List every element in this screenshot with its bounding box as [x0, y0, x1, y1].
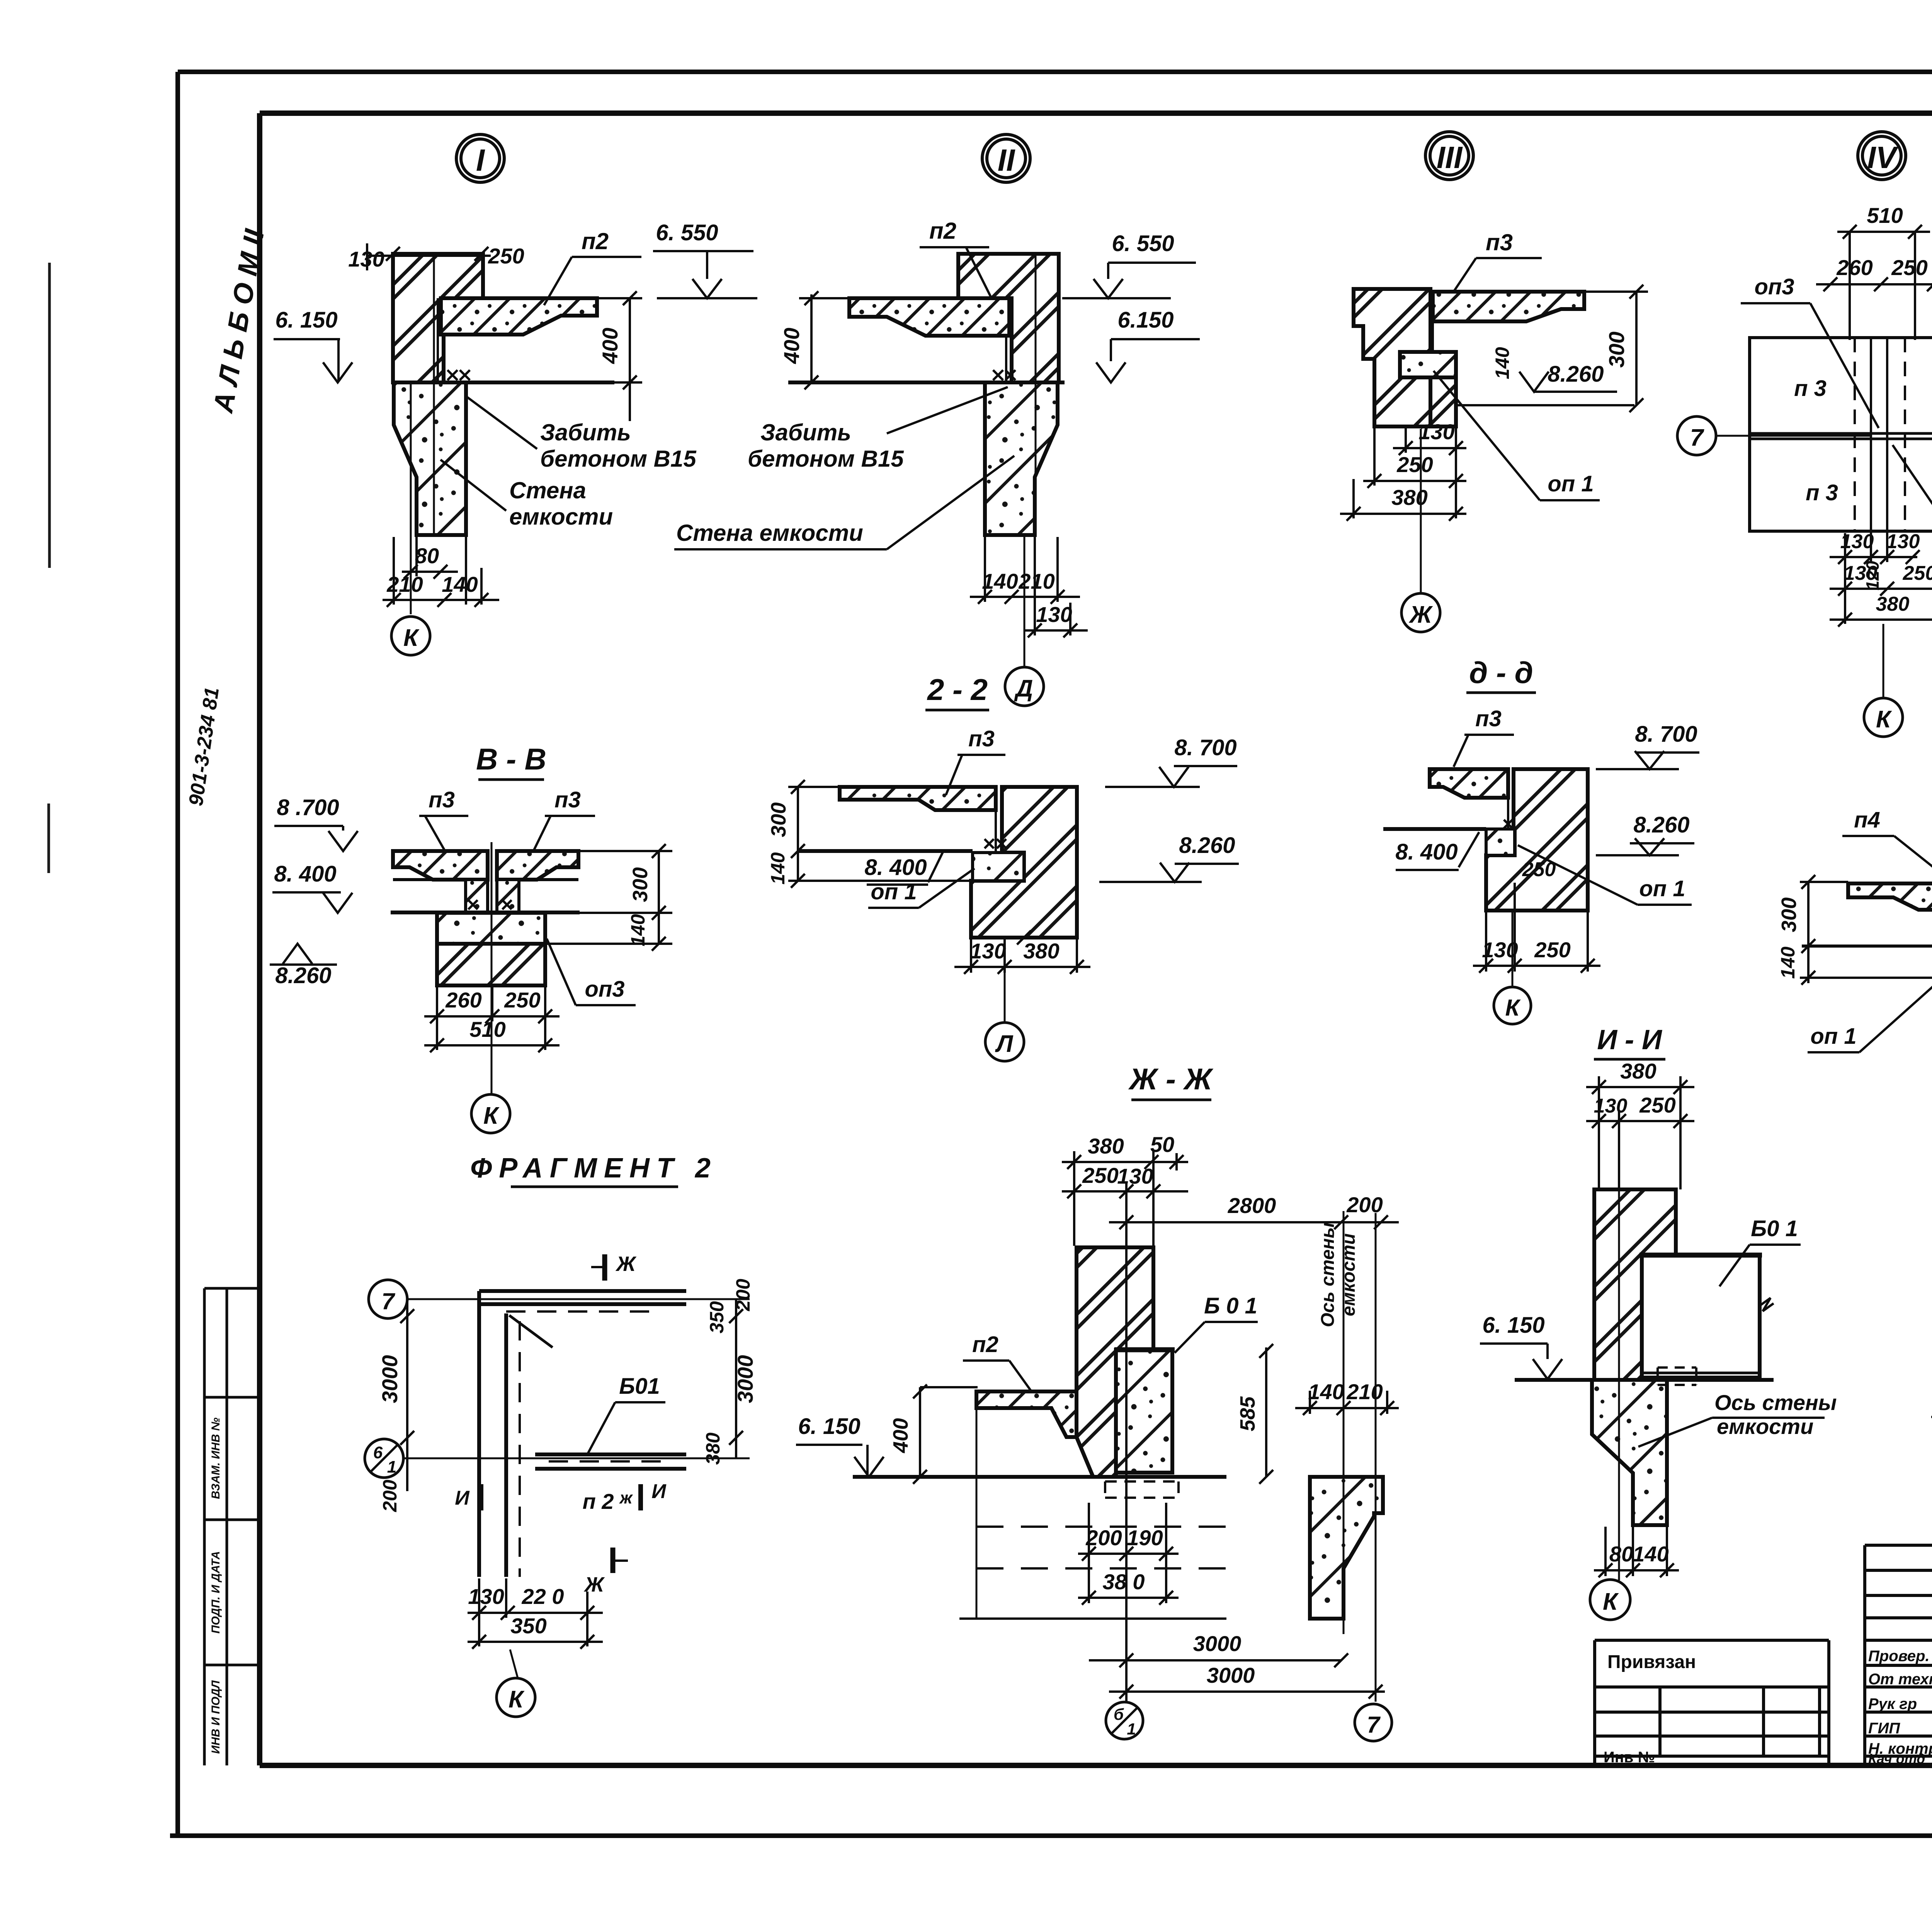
- И-И wall: [1594, 1189, 1676, 1380]
- д-д level line: [1383, 827, 1486, 831]
- detail II upper wall: [958, 254, 1059, 382]
- svg-text:Л: Л: [995, 1031, 1014, 1057]
- Ж-Ж embed plate dashed: [1105, 1481, 1179, 1498]
- Ж-Ж upper wall: [1077, 1247, 1153, 1477]
- detail IV circle: [1858, 132, 1906, 180]
- Ж-Ж slab п2: [976, 1391, 1077, 1437]
- detail II dim 400: [799, 291, 849, 389]
- detail I lower wall: [394, 382, 466, 535]
- svg-text:Ж - Ж: Ж - Ж: [1128, 1062, 1214, 1096]
- К-К pier K bottom dims 80 / 210 140: [1931, 1348, 1932, 1424]
- svg-text:130: 130: [1594, 1095, 1628, 1117]
- svg-text:300: 300: [629, 867, 652, 902]
- detail IV axis circle 7: [1677, 416, 1716, 455]
- svg-text:3000: 3000: [1193, 1631, 1242, 1656]
- detail III dim 300: [1584, 285, 1648, 412]
- svg-text:210: 210: [386, 572, 423, 596]
- svg-text:3000: 3000: [733, 1355, 757, 1403]
- svg-text:II: II: [998, 143, 1015, 177]
- svg-text:260: 260: [1836, 255, 1872, 280]
- detail II bottom dims 140/210/130: [970, 537, 1088, 637]
- svg-text:140: 140: [1777, 946, 1799, 979]
- svg-text:Провер.: Провер.: [1868, 1648, 1930, 1665]
- Ж-Ж dims 200 190 / 380: [959, 1503, 1226, 1619]
- svg-text:380: 380: [1088, 1134, 1124, 1158]
- detail I axis line: [411, 255, 434, 614]
- svg-text:6. 550: 6. 550: [1112, 231, 1174, 256]
- svg-text:250: 250: [1639, 1093, 1675, 1117]
- svg-text:IV: IV: [1867, 140, 1898, 175]
- svg-text:Привязан: Привязан: [1607, 1652, 1696, 1672]
- Ж-Ж right pier: [1310, 1477, 1383, 1619]
- д-д slab p3: [1430, 769, 1508, 798]
- 2-2 wall: [971, 787, 1077, 938]
- И-И embed plate dashed: [1658, 1368, 1696, 1385]
- detail I xxx joint fill marks: [447, 370, 470, 380]
- svg-text:Ось стены: Ось стены: [1318, 1222, 1338, 1327]
- svg-text:Рук гр: Рук гр: [1868, 1695, 1917, 1712]
- 2-2 axis + circle Л: [1004, 939, 1006, 1023]
- svg-text:Стена емкости: Стена емкости: [676, 520, 863, 546]
- svg-text:К: К: [403, 625, 420, 651]
- svg-text:140: 140: [1308, 1379, 1344, 1404]
- svg-text:I: I: [476, 143, 485, 177]
- svg-text:оп 1: оп 1: [871, 879, 917, 904]
- svg-text:оп3: оп3: [585, 977, 624, 1002]
- svg-text:д - д: д - д: [1469, 656, 1533, 690]
- svg-text:Б01: Б01: [619, 1374, 660, 1399]
- svg-text:380: 380: [702, 1432, 724, 1465]
- svg-text:п3: п3: [1486, 229, 1513, 255]
- svg-text:Ж: Ж: [615, 1252, 637, 1276]
- svg-text:140: 140: [1492, 347, 1513, 379]
- svg-text:300: 300: [1777, 897, 1801, 932]
- svg-text:Забить: Забить: [760, 420, 851, 445]
- svg-text:3000: 3000: [378, 1355, 402, 1403]
- svg-text:250: 250: [1534, 938, 1570, 962]
- detail III axis + circle Ж: [1420, 429, 1422, 593]
- svg-text:130: 130: [1886, 530, 1920, 553]
- 2-2 bottom dims 130/380: [954, 931, 1090, 974]
- svg-text:Инв №: Инв №: [1604, 1749, 1655, 1766]
- detail III circle: [1425, 132, 1473, 180]
- svg-text:п4: п4: [1854, 807, 1880, 832]
- svg-text:200: 200: [1346, 1193, 1383, 1217]
- detail III bottom dims 130/250/380: [1340, 377, 1466, 521]
- svg-text:емкости: емкости: [1338, 1233, 1359, 1317]
- svg-text:6: 6: [373, 1443, 383, 1462]
- svg-text:260: 260: [445, 988, 481, 1012]
- svg-text:п3: п3: [968, 726, 995, 751]
- detail I axis circle K: [391, 617, 430, 655]
- svg-text:Ж: Ж: [1408, 601, 1433, 628]
- д-д wall: [1486, 769, 1588, 911]
- detail IV bottom dims: [1830, 531, 1932, 627]
- svg-text:2800: 2800: [1228, 1193, 1276, 1218]
- svg-text:250: 250: [504, 988, 540, 1012]
- В-В right dim 300/140: [519, 844, 672, 951]
- detail I upper wall: [393, 254, 483, 382]
- 2-2 pad оп1: [973, 853, 1024, 881]
- svg-text:2 - 2: 2 - 2: [927, 673, 988, 707]
- Ж-Ж dim 585: [1259, 1344, 1273, 1484]
- 2-2 left dims 300/140: [788, 780, 971, 888]
- svg-text:Кач отд: Кач отд: [1868, 1751, 1925, 1767]
- В-В bottom dims 260/250/510: [424, 985, 560, 1052]
- svg-text:Д: Д: [1014, 675, 1033, 702]
- detail III wall: [1354, 289, 1430, 426]
- svg-text:1: 1: [1127, 1720, 1136, 1738]
- detail I bearing plate: [427, 389, 465, 394]
- К-К soffit lines: [1802, 945, 1932, 948]
- svg-text:250: 250: [1396, 452, 1433, 477]
- svg-text:210: 210: [1346, 1379, 1383, 1404]
- title block: left box Привязан: [1595, 1640, 1829, 1765]
- И-И top dims 380 / 130 250: [1586, 1076, 1694, 1189]
- д-д axis + circle К: [1512, 912, 1514, 986]
- detail IV dim 510: [1837, 225, 1930, 340]
- 2-2 xx marks: [985, 839, 1006, 848]
- svg-text:7: 7: [1367, 1712, 1381, 1738]
- Ж-Ж dims 3000 3000: [1089, 1228, 1385, 1701]
- drawing inner frame: [260, 108, 1932, 1771]
- svg-text:К: К: [483, 1103, 500, 1129]
- svg-text:380: 380: [1391, 485, 1427, 510]
- detail III slab p3: [1433, 292, 1584, 321]
- svg-text:300: 300: [1604, 331, 1629, 367]
- Ж-Ж dims 140 210: [1295, 1391, 1399, 1415]
- detail I slab p2: [441, 298, 597, 335]
- svg-text:250: 250: [1903, 562, 1932, 584]
- svg-text:300: 300: [767, 802, 790, 837]
- svg-text:7: 7: [1690, 425, 1704, 451]
- Ж-Ж dim 2800 200: [1109, 1215, 1399, 1229]
- svg-text:250: 250: [488, 244, 524, 268]
- 2-2 joint: [996, 787, 1002, 851]
- В-В xxx marks: [468, 900, 512, 909]
- svg-text:оп 1: оп 1: [1639, 876, 1685, 901]
- svg-text:8.260: 8.260: [1548, 362, 1604, 387]
- fragment И marks: [479, 1484, 483, 1510]
- В-В left slab p3: [393, 851, 488, 880]
- И-И level line: [1515, 1378, 1774, 1382]
- svg-text:8.260: 8.260: [1633, 812, 1689, 838]
- detail II lower wall: [985, 382, 1058, 535]
- И-И axis + circle К: [1618, 1124, 1620, 1580]
- svg-text:бетоном В15: бетоном В15: [748, 446, 904, 472]
- fragment bottom dims 130/220/350: [468, 1578, 603, 1649]
- И-И lower pier: [1592, 1380, 1667, 1525]
- svg-text:ВЗАМ. ИНВ №: ВЗАМ. ИНВ №: [209, 1417, 222, 1499]
- svg-text:емкости: емкости: [509, 504, 613, 530]
- В-В soffit level line: [391, 911, 580, 914]
- svg-text:б: б: [1114, 1705, 1124, 1723]
- svg-text:140: 140: [767, 852, 789, 885]
- detail IV dim 260/250: [1816, 277, 1932, 291]
- fragment axis circle 7: [369, 1280, 407, 1318]
- svg-text:130: 130: [1844, 562, 1878, 584]
- fragment dim 3000 left: [400, 1299, 414, 1458]
- svg-text:оп 1: оп 1: [1548, 471, 1594, 496]
- svg-text:585: 585: [1236, 1396, 1259, 1431]
- svg-text:400: 400: [889, 1418, 912, 1453]
- detail IV axis circle K: [1883, 624, 1884, 698]
- svg-text:22 0: 22 0: [522, 1584, 564, 1609]
- svg-text:Стена: Стена: [509, 477, 586, 503]
- svg-text:И: И: [455, 1487, 470, 1509]
- svg-text:ГИП: ГИП: [1868, 1720, 1900, 1737]
- svg-text:38 0: 38 0: [1103, 1570, 1145, 1594]
- svg-text:130: 130: [348, 247, 384, 271]
- fragment plan vertical wall: [479, 1291, 506, 1577]
- svg-text:190: 190: [1127, 1526, 1163, 1550]
- svg-text:8.260: 8.260: [275, 963, 331, 988]
- detail II axis + circle Д: [1024, 256, 1036, 667]
- svg-text:В - В: В - В: [476, 742, 546, 776]
- svg-text:ПОДП. И ДАТА: ПОДП. И ДАТА: [209, 1551, 222, 1634]
- fragment axis + circle К: [510, 1650, 518, 1678]
- svg-text:Забить: Забить: [540, 420, 631, 445]
- svg-text:1: 1: [387, 1458, 396, 1476]
- svg-text:400: 400: [779, 328, 804, 364]
- svg-text:250: 250: [1082, 1163, 1118, 1187]
- fragment plan corner chamfer: [509, 1315, 553, 1347]
- svg-text:п2: п2: [929, 218, 956, 244]
- svg-text:130: 130: [970, 939, 1006, 963]
- В-В right slab p3: [497, 851, 578, 880]
- fragment plan top wall: [479, 1291, 686, 1304]
- д-д bottom dims 130/250: [1473, 883, 1600, 973]
- svg-text:К: К: [509, 1686, 525, 1713]
- К-К left dims 300/140: [1800, 875, 1932, 985]
- svg-text:п2: п2: [972, 1332, 998, 1357]
- svg-text:380: 380: [1620, 1059, 1656, 1083]
- svg-text:К: К: [1876, 706, 1892, 733]
- title block: signature table: [1865, 1545, 1932, 1765]
- Ж-Ж beam Б01: [1116, 1350, 1172, 1473]
- svg-text:п 3: п 3: [1806, 480, 1838, 505]
- svg-text:250: 250: [1522, 858, 1556, 881]
- svg-text:Ось стены: Ось стены: [1714, 1390, 1837, 1415]
- svg-text:ИНВ И ПОДЛ: ИНВ И ПОДЛ: [209, 1680, 222, 1754]
- detail I level line 6.150: [391, 381, 614, 384]
- svg-text:6.150: 6.150: [1117, 307, 1173, 333]
- svg-text:8 .700: 8 .700: [277, 795, 339, 820]
- svg-text:оп 1: оп 1: [1810, 1024, 1856, 1049]
- svg-text:От техн.: От техн.: [1868, 1671, 1932, 1688]
- svg-text:8. 400: 8. 400: [274, 861, 336, 887]
- svg-text:400: 400: [598, 328, 622, 364]
- В-В axis + circle К: [491, 842, 493, 1094]
- fragment axis circle 6/1: [365, 1439, 403, 1478]
- svg-text:п3: п3: [429, 787, 455, 812]
- svg-text:80: 80: [415, 544, 439, 568]
- svg-text:8.260: 8.260: [1179, 833, 1235, 858]
- svg-text:8. 700: 8. 700: [1174, 735, 1236, 760]
- svg-text:510: 510: [469, 1017, 505, 1041]
- svg-text:п 3: п 3: [1794, 376, 1827, 401]
- detail IV joint verticals: [1871, 338, 1887, 531]
- fragment section mark Ж top: [602, 1254, 607, 1281]
- svg-text:п3: п3: [1475, 706, 1502, 731]
- detail III wall under pad: [1430, 377, 1456, 426]
- svg-text:350: 350: [510, 1614, 546, 1638]
- svg-text:50: 50: [1150, 1132, 1174, 1157]
- svg-text:140: 140: [1633, 1542, 1668, 1566]
- detail III soffit ext line: [1458, 404, 1634, 406]
- Ж-Ж circle б/1: [1106, 1702, 1143, 1739]
- detail II circle: [982, 134, 1030, 182]
- fragment section mark Ж bottom: [611, 1548, 616, 1573]
- svg-text:380: 380: [1876, 593, 1910, 615]
- svg-text:8. 400: 8. 400: [864, 855, 927, 880]
- fragment plan middle wall: [535, 1454, 686, 1469]
- svg-text:И: И: [651, 1480, 667, 1503]
- В-В wall below: [437, 944, 545, 985]
- svg-text:К: К: [1603, 1588, 1619, 1615]
- И-И bottom dims 80 140: [1594, 1527, 1679, 1577]
- detail I circle: [456, 134, 504, 182]
- svg-text:7: 7: [381, 1288, 395, 1314]
- svg-text:380: 380: [1023, 939, 1059, 963]
- svg-text:6. 150: 6. 150: [798, 1414, 860, 1439]
- svg-text:140: 140: [982, 569, 1018, 593]
- Ж-Ж dim 400: [913, 1385, 978, 1484]
- svg-text:130: 130: [1117, 1164, 1153, 1188]
- svg-text:И - И: И - И: [1597, 1024, 1663, 1055]
- svg-text:130: 130: [1840, 530, 1874, 553]
- Ж-Ж dashed lines below: [976, 1527, 1226, 1568]
- svg-text:п3: п3: [554, 787, 581, 812]
- detail III joint: [1430, 292, 1433, 377]
- 2-2 level line 8.400: [799, 849, 973, 853]
- д-д joint: [1508, 769, 1514, 829]
- detail II slab p2: [849, 298, 1009, 336]
- 2-2 slab p3: [840, 787, 996, 810]
- svg-text:200: 200: [379, 1480, 401, 1512]
- В-В pad оп3: [437, 913, 545, 944]
- detail I top dim 130/250: [367, 243, 491, 270]
- В-В ribs: [466, 880, 488, 913]
- detail II xxx marks: [993, 370, 1015, 380]
- svg-text:80: 80: [1609, 1542, 1633, 1566]
- Ж-Ж axes vertical: [1344, 1211, 1376, 1702]
- svg-text:130: 130: [1036, 602, 1072, 627]
- detail I bottom dims 80/210/140: [383, 537, 499, 607]
- д-д xx marks: [1504, 820, 1512, 828]
- detail I dim 400: [590, 291, 642, 421]
- detail II level line: [788, 381, 1065, 384]
- svg-text:III: III: [1437, 140, 1463, 175]
- И-И beam Б01 box: [1642, 1255, 1760, 1378]
- scan paper edge artifact: [49, 263, 49, 873]
- detail I joint: [438, 298, 444, 382]
- svg-text:Б 0 1: Б 0 1: [1204, 1293, 1257, 1318]
- svg-text:130: 130: [468, 1584, 504, 1609]
- svg-text:200: 200: [732, 1279, 754, 1312]
- Ж-Ж circle 7: [1355, 1704, 1392, 1741]
- svg-text:6. 150: 6. 150: [275, 307, 337, 333]
- svg-text:6. 150: 6. 150: [1482, 1313, 1544, 1338]
- svg-text:510: 510: [1867, 203, 1903, 228]
- svg-text:ФРАГМЕНТ 2: ФРАГМЕНТ 2: [470, 1153, 718, 1184]
- fragment dim 200 left: [406, 1458, 408, 1491]
- detail III pad op1: [1400, 352, 1456, 377]
- detail II joint: [1006, 298, 1012, 382]
- svg-text:п2: п2: [582, 228, 609, 254]
- left margin column boxes: [204, 1288, 260, 1765]
- Ж-Ж level line 6.150: [853, 1475, 1226, 1479]
- fragment dim 3000 right: [729, 1299, 743, 1458]
- К-К left slab п4: [1848, 883, 1932, 910]
- detail IV dashed flank lines: [1855, 338, 1905, 531]
- д-д pad оп1: [1486, 829, 1515, 855]
- svg-text:140: 140: [442, 572, 478, 596]
- svg-text:200: 200: [1085, 1526, 1122, 1550]
- svg-text:3000: 3000: [1207, 1663, 1255, 1687]
- svg-text:К: К: [1505, 995, 1521, 1021]
- detail IV plan mid wall lines: [1750, 433, 1932, 439]
- Ж-Ж top dims 380 50 / 250 130: [1062, 1151, 1188, 1246]
- В-В slab band bottom lines: [393, 878, 578, 881]
- svg-text:350: 350: [706, 1301, 728, 1334]
- svg-text:250: 250: [1891, 255, 1927, 280]
- svg-text:130: 130: [1418, 420, 1454, 444]
- svg-text:6. 550: 6. 550: [656, 220, 718, 245]
- svg-text:8. 700: 8. 700: [1635, 722, 1697, 747]
- svg-text:140: 140: [627, 914, 649, 946]
- svg-text:бетоном В15: бетоном В15: [540, 446, 697, 472]
- svg-text:8. 400: 8. 400: [1395, 839, 1458, 865]
- svg-text:Б0 1: Б0 1: [1751, 1216, 1798, 1241]
- svg-text:оп3: оп3: [1754, 274, 1794, 299]
- detail IV plan outline: [1750, 338, 1932, 531]
